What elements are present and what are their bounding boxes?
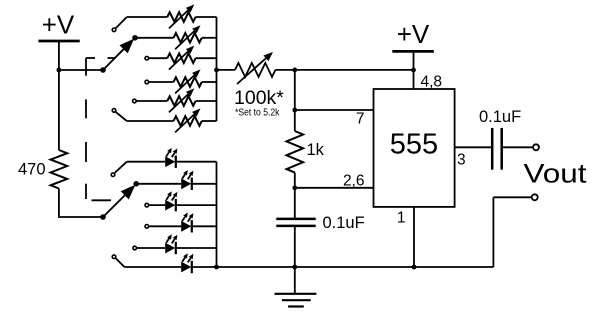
wire LED D4 to bus [192,225,217,227]
switch S1a contact 4 [145,80,149,84]
wire LED D3 to bus [176,204,217,206]
switch S1a contact 5 [133,99,137,103]
wire node A to switch S1a pole [59,69,103,71]
switch S1a contact 3 [145,56,149,60]
ground rail junction at LED bus [214,265,219,270]
wire capacitor C1 to ground rail [294,226,296,267]
wire capacitor C2 to output terminal [502,146,533,148]
wire LED D5 to bus [176,247,217,249]
wire +V right to pins 4,8 [413,51,415,89]
wire pin 3 to capacitor C2 [455,146,493,148]
svg-text:470: 470 [18,161,46,179]
op-amp/timer U1 555 [374,89,455,207]
switch S1b contact 5 [133,246,137,250]
wire to rheostat VR2 [135,37,174,39]
wire rheostat VR6 to bus [202,120,217,122]
switch mechanical link (dashed) [86,57,95,59]
rheostat VR5 [167,96,195,106]
wire to rheostat VR6 [116,112,127,121]
wire node E to pin 7 [295,109,374,111]
svg-text:*Set to 5.2k: *Set to 5.2k [235,107,280,119]
wire rheostat VR5 to bus [196,100,217,102]
pin 1 rail junction [412,265,417,270]
wire +V left to node A [58,41,60,71]
ground junction [292,265,297,270]
ground [294,267,296,294]
node A junction [57,68,62,73]
wire rheostat VR3 to bus [196,57,217,59]
LED D1 [165,156,175,167]
switch S1b contact 3 [145,203,149,207]
switch S1a wiper arm [103,49,124,70]
wire resistor 470 to switch S1b pole [58,189,60,217]
switch S1b contact 4 [145,225,149,229]
LED D4 [181,221,191,232]
switch S1a contact 1 [112,28,116,32]
switch S1b contact 1 [111,173,115,177]
wire potentiometer to node C [275,69,294,71]
wire node C to node E [294,70,296,131]
svg-text:4,8: 4,8 [421,74,443,91]
wire to rheostat VR4 [149,81,174,83]
LED D3 [165,200,175,211]
svg-text:0.1uF: 0.1uF [479,108,521,126]
svg-text:3: 3 [457,152,466,169]
svg-text:555: 555 [390,129,438,161]
wire rheostat VR1 to bus [196,16,217,18]
svg-text:0.1uF: 0.1uF [323,214,365,232]
wire output terminal - to ground rail [493,196,531,198]
LED D2 [181,178,191,189]
wire to rheostat VR5 [137,100,168,102]
output terminal - [532,194,538,200]
wire to LED D1 [115,162,127,173]
node C junction [292,68,297,73]
rheostat VR1 [167,12,195,22]
wire node C to node D (555 supply) [295,69,414,71]
switch S1a contact 2 junction [132,35,138,41]
rheostat VR2 [174,33,202,43]
wire node A to resistor 470 [58,70,60,150]
node F junction (pins 2,6) [292,185,297,190]
wire to rheostat VR1 [116,17,127,28]
output terminal + [533,144,539,150]
wire rheostat VR4 to bus [202,81,217,83]
rheostat bus wire [216,17,218,121]
svg-text:2,6: 2,6 [343,172,365,189]
LED bus wire [216,162,218,267]
svg-text:1: 1 [397,210,406,227]
switch S1b contact 6 [112,255,116,259]
svg-text:1k: 1k [307,141,325,159]
rheostat VR6 [174,116,202,126]
LED D5 [165,243,175,254]
wire resistor 1k to node F [294,173,296,188]
wire to LED D5 [137,247,165,249]
svg-text:Vout: Vout [524,159,588,189]
LED D6 [181,262,191,273]
switch S1a pole [100,67,106,73]
node B junction (bus to 100k) [214,68,219,73]
wire to LED D3 [149,204,165,206]
switch S1b contact 2 junction [133,181,139,187]
switch S1b pole [100,214,106,220]
wire node B to potentiometer [217,69,236,71]
switch S1a contact 6 [112,109,116,113]
resistor 1k [287,131,304,173]
svg-text:+V: +V [42,10,75,40]
wire node F to capacitor C1 [294,188,296,218]
wire LED D2 to bus [192,183,217,185]
node E junction (pin 7) [292,108,297,113]
wire to LED D2 [136,183,181,185]
potentiometer 100k* [235,63,275,77]
svg-text:+V: +V [397,19,430,49]
wire rheostat VR2 to bus [202,37,217,39]
rheostat VR4 [174,77,202,87]
svg-text:7: 7 [356,111,365,128]
wire LED D6 to bus [192,266,217,268]
wire pin 1 to ground rail [413,207,415,267]
wire node F to pins 2,6 [295,187,374,189]
rheostat VR3 [167,53,195,63]
switch S1b wiper arm [103,195,125,217]
node D junction [411,68,416,73]
capacitor C2 0.1uF [491,128,494,170]
wire to LED D6 [116,258,125,267]
wire to rheostat VR3 [149,57,167,59]
resistor 470 [51,150,68,189]
wire LED D1 to bus [176,161,217,163]
wire to LED D4 [149,225,181,227]
capacitor C1 0.1uF [276,218,315,221]
ground rail wire [217,266,494,268]
